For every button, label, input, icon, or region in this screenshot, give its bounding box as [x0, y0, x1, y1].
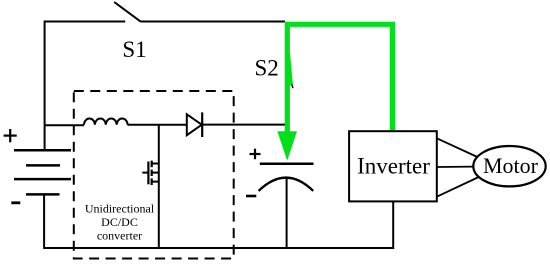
svg-text:S2: S2 — [254, 56, 278, 81]
svg-text:S1: S1 — [122, 37, 146, 62]
svg-text:Unidirectional: Unidirectional — [85, 202, 155, 216]
svg-text:Motor: Motor — [483, 153, 539, 178]
svg-text:Inverter: Inverter — [357, 154, 430, 179]
svg-text:DC/DC: DC/DC — [101, 215, 138, 229]
svg-text:converter: converter — [97, 229, 142, 243]
